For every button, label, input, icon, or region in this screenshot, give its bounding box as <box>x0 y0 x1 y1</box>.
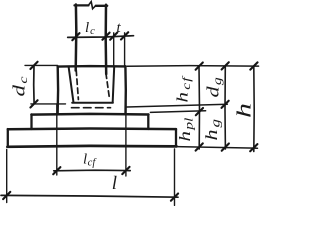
column left edge <box>74 5 77 71</box>
dc dimension line <box>33 65 35 104</box>
lcf extension left <box>56 104 58 175</box>
arrow lcf right <box>122 167 129 174</box>
arrow hcf top <box>196 63 203 70</box>
dimension line dg hg <box>224 66 226 149</box>
arrow dc bottom <box>30 100 37 107</box>
socket left wall <box>69 67 74 102</box>
dimension line hcf hpl <box>198 66 201 149</box>
column right edge <box>104 5 107 74</box>
arrow l left <box>3 192 10 199</box>
socket floor extension right (line A) <box>127 104 228 107</box>
arrow h bottom <box>250 144 257 151</box>
arrow dg bottom hg top <box>222 101 229 108</box>
break symbol <box>89 2 96 9</box>
svg-text:lc: lc <box>85 20 95 37</box>
l dimension line <box>1 195 178 197</box>
lcf dimension line <box>54 169 131 172</box>
arrow lc right <box>102 33 109 40</box>
cup top edge <box>58 65 126 68</box>
slab top edge <box>8 127 176 130</box>
svg-text:hg: hg <box>202 119 223 141</box>
t extension line outer <box>124 33 126 66</box>
slab bottom edge <box>7 145 176 149</box>
svg-text:t: t <box>117 20 122 36</box>
arrow hcf bottom hpl top <box>196 108 203 115</box>
arrow lcf left <box>53 167 60 174</box>
svg-text:hpl: hpl <box>176 118 196 142</box>
arrow h top <box>250 62 257 69</box>
arrow l right <box>171 194 178 201</box>
svg-text:l: l <box>112 173 117 194</box>
slab bottom extension right <box>177 147 258 149</box>
slab left edge <box>7 129 9 146</box>
step top edge <box>31 113 148 116</box>
lcf extension right <box>125 104 127 177</box>
dc bottom extension <box>31 103 66 105</box>
dimension line h <box>253 66 255 152</box>
l extension right <box>174 149 176 206</box>
dimension line lc and t <box>68 36 134 38</box>
socket floor solid <box>72 102 113 104</box>
arrow hpl bottom <box>196 143 203 150</box>
arrow dc top <box>30 62 37 69</box>
arrow lc left <box>72 33 79 40</box>
arrow t right <box>121 32 128 39</box>
cup right edge <box>124 66 127 114</box>
dc top extension <box>25 64 57 66</box>
arrow hg bottom <box>222 144 229 151</box>
arrow dg top <box>222 62 229 69</box>
arrow t left <box>110 33 117 40</box>
arrow slashes <box>3 32 257 200</box>
t extension line inner <box>113 33 115 66</box>
socket floor dashed <box>72 107 111 109</box>
step left edge <box>30 114 32 129</box>
l extension left <box>6 150 8 203</box>
svg-text:dc: dc <box>10 76 30 97</box>
column hidden left edge dashed <box>76 70 78 100</box>
column hidden right edge dashed <box>106 73 110 100</box>
cup left edge <box>56 66 59 114</box>
column top cap with break <box>75 4 89 6</box>
step top extension right (line B) <box>150 111 205 113</box>
svg-text:dg: dg <box>204 77 225 97</box>
step right edge <box>147 114 149 129</box>
svg-text:h: h <box>232 103 255 118</box>
svg-text:lcf: lcf <box>83 152 97 169</box>
cup top extension right <box>127 65 258 68</box>
svg-text:hcf: hcf <box>174 75 194 102</box>
socket right wall <box>113 67 115 102</box>
slab right edge <box>175 129 177 146</box>
